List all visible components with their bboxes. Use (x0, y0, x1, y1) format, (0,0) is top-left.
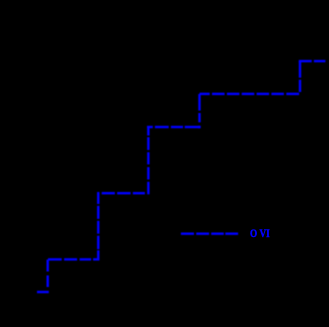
legend label O VI (250, 228, 270, 240)
step tread 4 (horizontal y=127.0) (147, 126, 199, 128)
step tread 6 (top-right horizontal y=61.1) (299, 60, 326, 62)
step riser 3 (vertical x=148.35) (147, 127, 149, 195)
step riser 2 (vertical x=98.25) (97, 192, 99, 260)
step riser 4 (vertical x=199.5) (198, 94, 200, 128)
step riser 1 (vertical x=47.7) (47, 260, 49, 287)
step tread 1 (bottom-left horizontal y=292) (37, 291, 49, 293)
step tread 5 (horizontal y=93.9) (200, 93, 300, 95)
step tread 3 (horizontal y=193.2) (102, 192, 145, 194)
step tread 2 (horizontal y=259.4) (48, 258, 99, 260)
legend dashed line sample (181, 232, 238, 234)
step riser 5 (vertical x=300) (299, 61, 301, 92)
